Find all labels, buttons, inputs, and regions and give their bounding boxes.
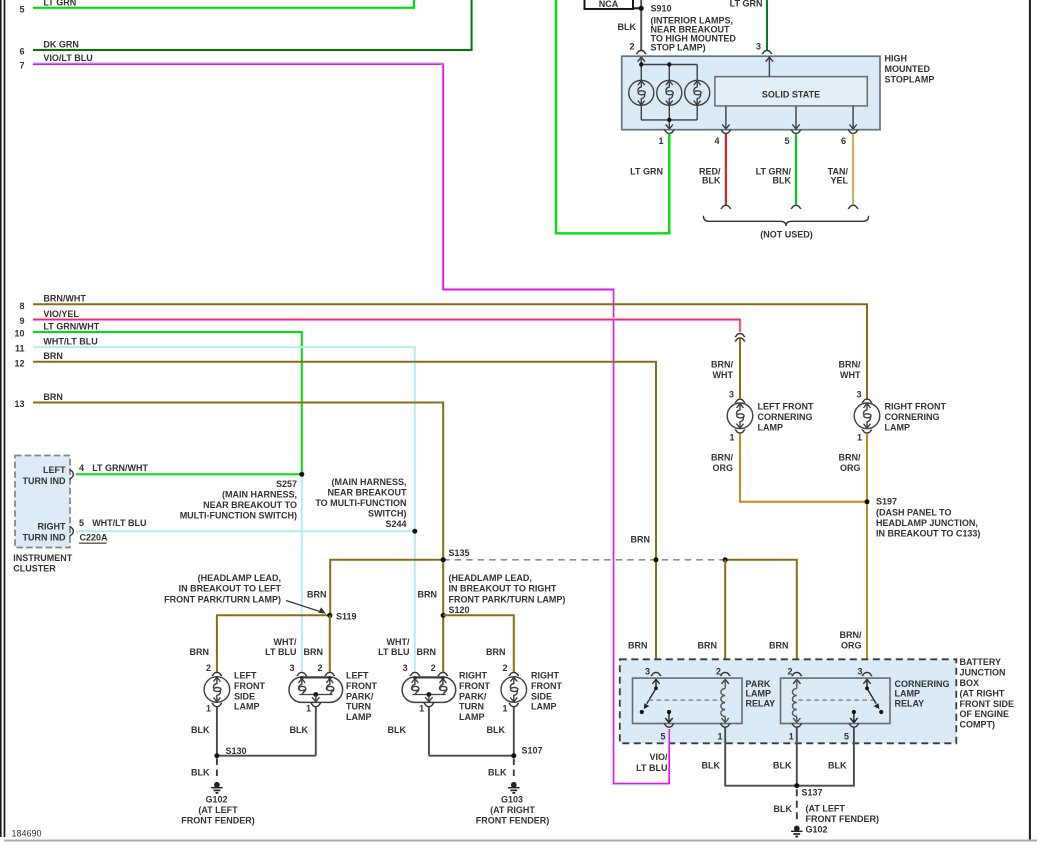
svg-text:FRONT FENDER): FRONT FENDER) (181, 815, 255, 825)
svg-text:BRN/: BRN/ (839, 360, 861, 370)
svg-text:CORNERING: CORNERING (758, 412, 813, 422)
svg-text:TURN IND: TURN IND (23, 532, 66, 542)
svg-text:DK GRN: DK GRN (43, 39, 79, 49)
svg-text:BLK: BLK (290, 725, 309, 735)
svg-text:VIO/: VIO/ (649, 752, 668, 762)
svg-text:S137: S137 (802, 788, 823, 798)
svg-text:BRN: BRN (698, 641, 718, 651)
svg-text:BRN: BRN (486, 647, 506, 657)
svg-text:FRONT: FRONT (531, 681, 562, 691)
svg-text:S257: S257 (276, 479, 297, 489)
svg-text:1: 1 (306, 703, 311, 713)
svg-text:FRONT: FRONT (234, 681, 265, 691)
svg-text:BLK: BLK (702, 761, 721, 771)
svg-text:S197: S197 (876, 497, 897, 507)
svg-text:(AT LEFT: (AT LEFT (806, 804, 846, 814)
svg-text:BRN: BRN (418, 590, 438, 600)
svg-text:1: 1 (789, 731, 794, 741)
svg-text:1: 1 (658, 136, 663, 146)
svg-text:BLK: BLK (191, 767, 210, 777)
svg-text:INSTRUMENT: INSTRUMENT (13, 553, 72, 563)
svg-text:2: 2 (787, 667, 792, 677)
svg-text:LEFT: LEFT (346, 671, 369, 681)
svg-text:BLK: BLK (773, 176, 792, 186)
svg-text:BRN/: BRN/ (840, 630, 862, 640)
svg-text:VIO/LT BLU: VIO/LT BLU (43, 53, 92, 63)
svg-text:2: 2 (629, 42, 634, 52)
svg-text:7: 7 (19, 60, 24, 70)
svg-text:PARK: PARK (746, 679, 771, 689)
svg-text:BRN/: BRN/ (711, 453, 733, 463)
svg-text:MOUNTED: MOUNTED (885, 64, 931, 74)
svg-text:RIGHT FRONT: RIGHT FRONT (885, 402, 947, 412)
svg-text:3: 3 (729, 389, 734, 399)
svg-text:3: 3 (289, 663, 294, 673)
svg-text:2: 2 (317, 663, 322, 673)
svg-text:BLK: BLK (702, 176, 721, 186)
svg-text:S135: S135 (449, 548, 470, 558)
svg-text:BRN: BRN (631, 534, 651, 544)
svg-text:LAMP: LAMP (885, 422, 911, 432)
svg-text:S120: S120 (449, 605, 470, 615)
svg-text:FRONT PARK/TURN LAMP): FRONT PARK/TURN LAMP) (449, 594, 566, 604)
svg-text:LT BLU: LT BLU (265, 647, 296, 657)
svg-text:SWITCH): SWITCH) (368, 509, 407, 519)
svg-text:BLK: BLK (828, 761, 847, 771)
svg-text:FRONT SIDE: FRONT SIDE (960, 699, 1015, 709)
svg-text:RIGHT: RIGHT (459, 671, 488, 681)
svg-text:(MAIN HARNESS,: (MAIN HARNESS, (222, 490, 297, 500)
svg-text:WHT/LT BLU: WHT/LT BLU (92, 518, 146, 528)
svg-text:11: 11 (15, 344, 25, 354)
svg-text:STOP LAMP): STOP LAMP) (651, 43, 706, 53)
svg-text:BLK: BLK (191, 725, 210, 735)
svg-text:BRN: BRN (190, 647, 210, 657)
svg-text:SIDE: SIDE (234, 691, 255, 701)
svg-text:LT GRN: LT GRN (730, 0, 763, 8)
svg-text:5: 5 (784, 136, 789, 146)
svg-text:1: 1 (206, 703, 211, 713)
svg-text:WHT: WHT (840, 370, 861, 380)
svg-text:FRONT FENDER): FRONT FENDER) (476, 815, 550, 825)
svg-text:10: 10 (14, 329, 24, 339)
svg-text:TURN: TURN (346, 702, 371, 712)
svg-text:1: 1 (502, 703, 507, 713)
svg-text:BRN: BRN (43, 351, 63, 361)
svg-text:2: 2 (206, 663, 211, 673)
svg-text:LAMP: LAMP (531, 702, 557, 712)
svg-text:TURN: TURN (459, 702, 484, 712)
svg-text:LT BLU: LT BLU (378, 647, 409, 657)
svg-text:BOX: BOX (960, 678, 980, 688)
svg-text:LAMP: LAMP (234, 702, 260, 712)
svg-text:IN BREAKOUT TO C133): IN BREAKOUT TO C133) (876, 529, 980, 539)
svg-text:(HEADLAMP LEAD,: (HEADLAMP LEAD, (449, 573, 532, 583)
svg-text:NCA: NCA (599, 0, 619, 9)
svg-text:LAMP: LAMP (758, 422, 784, 432)
svg-text:(NOT USED): (NOT USED) (760, 229, 813, 239)
svg-text:LEFT FRONT: LEFT FRONT (758, 402, 814, 412)
svg-text:LT BLU: LT BLU (636, 763, 667, 773)
svg-text:S130: S130 (226, 746, 247, 756)
svg-text:RELAY: RELAY (895, 698, 925, 708)
svg-text:BRN: BRN (307, 590, 327, 600)
svg-text:TURN IND: TURN IND (23, 476, 66, 486)
svg-text:BRN/WHT: BRN/WHT (43, 293, 86, 303)
svg-text:CORNERING: CORNERING (885, 412, 940, 422)
svg-text:BLK: BLK (618, 22, 637, 32)
svg-text:2: 2 (502, 663, 507, 673)
svg-text:OF ENGINE: OF ENGINE (960, 709, 1010, 719)
svg-text:FRONT FENDER): FRONT FENDER) (806, 814, 880, 824)
svg-text:1: 1 (717, 731, 722, 741)
svg-text:CORNERING: CORNERING (895, 679, 950, 689)
svg-text:LAMP: LAMP (346, 712, 372, 722)
svg-text:WHT/: WHT/ (274, 637, 297, 647)
svg-text:S107: S107 (522, 745, 543, 755)
svg-text:5: 5 (79, 518, 84, 528)
svg-text:5: 5 (660, 731, 665, 741)
svg-text:1: 1 (857, 433, 862, 443)
svg-text:S244: S244 (385, 519, 406, 529)
svg-text:LAMP: LAMP (746, 689, 772, 699)
svg-text:IN BREAKOUT TO RIGHT: IN BREAKOUT TO RIGHT (449, 584, 557, 594)
svg-text:FRONT: FRONT (459, 681, 490, 691)
svg-text:1: 1 (729, 433, 734, 443)
svg-text:BRN: BRN (769, 641, 789, 651)
svg-text:LEFT: LEFT (234, 671, 257, 681)
svg-text:IN BREAKOUT TO LEFT: IN BREAKOUT TO LEFT (179, 584, 282, 594)
svg-text:(AT RIGHT: (AT RIGHT (490, 805, 535, 815)
svg-text:HEADLAMP JUNCTION,: HEADLAMP JUNCTION, (876, 518, 978, 528)
svg-text:WHT/: WHT/ (387, 637, 410, 647)
svg-text:BLK: BLK (388, 725, 407, 735)
svg-text:BLK: BLK (773, 761, 792, 771)
svg-text:SOLID STATE: SOLID STATE (762, 90, 820, 100)
svg-text:BRN/: BRN/ (711, 360, 733, 370)
svg-text:LAMP: LAMP (895, 689, 921, 699)
svg-text:G103: G103 (501, 794, 523, 804)
svg-text:(MAIN HARNESS,: (MAIN HARNESS, (331, 477, 406, 487)
svg-text:(HEADLAMP LEAD,: (HEADLAMP LEAD, (198, 573, 281, 583)
svg-text:RELAY: RELAY (746, 698, 776, 708)
svg-text:9: 9 (19, 316, 24, 326)
svg-text:BLK: BLK (488, 767, 507, 777)
svg-text:4: 4 (714, 136, 719, 146)
svg-text:PARK/: PARK/ (346, 691, 374, 701)
svg-text:BRN: BRN (43, 392, 63, 402)
svg-text:LT GRN: LT GRN (43, 0, 76, 7)
svg-text:5: 5 (844, 731, 849, 741)
svg-text:ORG: ORG (841, 641, 862, 651)
svg-text:JUNCTION: JUNCTION (960, 668, 1006, 678)
svg-text:COMPT): COMPT) (960, 720, 996, 730)
svg-text:WHT/LT BLU: WHT/LT BLU (43, 336, 97, 346)
svg-text:FRONT PARK/TURN LAMP): FRONT PARK/TURN LAMP) (164, 594, 281, 604)
svg-text:3: 3 (756, 42, 761, 52)
svg-text:BLK: BLK (774, 804, 793, 814)
svg-text:RIGHT: RIGHT (531, 671, 560, 681)
svg-text:NEAR BREAKOUT: NEAR BREAKOUT (327, 488, 407, 498)
svg-text:YEL: YEL (830, 176, 848, 186)
svg-text:ORG: ORG (712, 463, 733, 473)
svg-text:S119: S119 (336, 611, 357, 621)
svg-text:5: 5 (19, 4, 24, 14)
svg-text:(AT RIGHT: (AT RIGHT (960, 688, 1005, 698)
svg-text:LAMP: LAMP (459, 712, 485, 722)
svg-text:HIGH: HIGH (885, 54, 908, 64)
svg-text:184690: 184690 (12, 829, 42, 839)
svg-text:PARK/: PARK/ (459, 691, 487, 701)
svg-text:STOPLAMP: STOPLAMP (885, 74, 935, 84)
svg-text:(DASH PANEL TO: (DASH PANEL TO (876, 507, 952, 517)
svg-text:ORG: ORG (840, 463, 861, 473)
svg-text:3: 3 (857, 667, 862, 677)
svg-text:3: 3 (856, 389, 861, 399)
svg-text:BATTERY: BATTERY (960, 657, 1002, 667)
svg-text:3: 3 (645, 667, 650, 677)
svg-text:SIDE: SIDE (531, 691, 552, 701)
svg-text:LT GRN/WHT: LT GRN/WHT (92, 463, 148, 473)
svg-text:FRONT: FRONT (346, 681, 377, 691)
svg-text:NEAR BREAKOUT TO: NEAR BREAKOUT TO (203, 500, 297, 510)
svg-text:(AT LEFT: (AT LEFT (198, 805, 238, 815)
svg-text:C220A: C220A (80, 533, 109, 543)
svg-text:RIGHT: RIGHT (38, 522, 67, 532)
svg-text:6: 6 (841, 136, 846, 146)
svg-text:BRN/: BRN/ (839, 453, 861, 463)
svg-text:WHT: WHT (713, 370, 734, 380)
svg-text:CLUSTER: CLUSTER (13, 564, 56, 574)
svg-text:4: 4 (79, 463, 84, 473)
svg-text:TO MULTI-FUNCTION: TO MULTI-FUNCTION (315, 498, 406, 508)
svg-text:BLK: BLK (487, 725, 506, 735)
svg-text:12: 12 (14, 358, 24, 368)
svg-text:G102: G102 (806, 824, 828, 834)
svg-text:LEFT: LEFT (43, 465, 66, 475)
svg-text:LT GRN: LT GRN (630, 166, 663, 176)
svg-text:BRN: BRN (628, 641, 648, 651)
svg-text:G102: G102 (205, 794, 227, 804)
svg-text:13: 13 (14, 399, 24, 409)
svg-text:S910: S910 (651, 4, 672, 14)
svg-text:MULTI-FUNCTION SWITCH): MULTI-FUNCTION SWITCH) (180, 511, 297, 521)
svg-text:BRN: BRN (304, 647, 324, 657)
svg-text:VIO/YEL: VIO/YEL (43, 309, 79, 319)
svg-text:8: 8 (19, 301, 24, 311)
svg-text:6: 6 (19, 47, 24, 57)
svg-text:BRN: BRN (417, 647, 437, 657)
svg-text:LT GRN/WHT: LT GRN/WHT (43, 321, 99, 331)
